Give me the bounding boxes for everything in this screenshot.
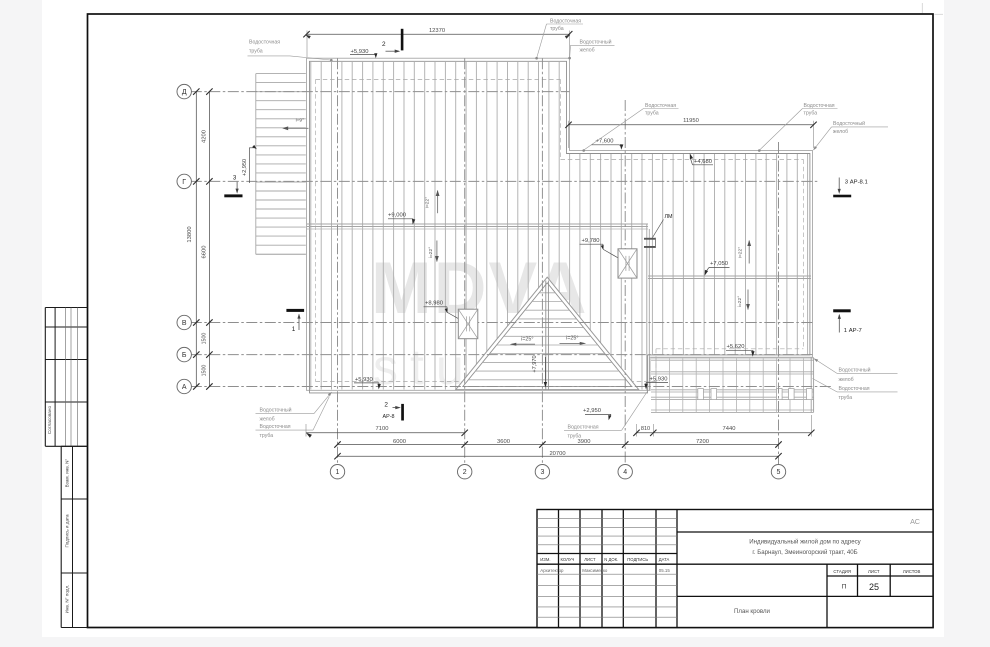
svg-text:Инв. N° подл.: Инв. N° подл. xyxy=(65,585,70,614)
svg-text:Водосточный: Водосточный xyxy=(833,120,865,127)
svg-text:Водосточная: Водосточная xyxy=(645,103,676,109)
svg-text:i=22°: i=22° xyxy=(737,296,743,307)
svg-text:труба: труба xyxy=(568,434,582,440)
svg-text:ЛИСТОВ: ЛИСТОВ xyxy=(903,569,921,574)
svg-text:6600: 6600 xyxy=(202,246,208,259)
svg-text:Водосточная: Водосточная xyxy=(249,40,280,46)
svg-text:желоб: желоб xyxy=(260,417,275,423)
svg-text:желоб: желоб xyxy=(580,47,595,53)
svg-text:Г: Г xyxy=(182,179,186,186)
svg-text:3: 3 xyxy=(233,175,237,182)
svg-text:труба: труба xyxy=(260,433,274,439)
svg-text:+5,930: +5,930 xyxy=(351,49,369,55)
svg-text:i=22°: i=22° xyxy=(737,247,743,258)
svg-text:Б: Б xyxy=(182,352,187,359)
svg-text:Архитектор: Архитектор xyxy=(540,568,564,573)
svg-text:+8,980: +8,980 xyxy=(425,300,443,306)
svg-text:ДАТА: ДАТА xyxy=(659,557,670,562)
svg-text:13800: 13800 xyxy=(187,226,193,242)
svg-text:Водосточная: Водосточная xyxy=(839,386,870,392)
svg-text:ИЗМ.: ИЗМ. xyxy=(540,557,550,562)
svg-text:План кровли: План кровли xyxy=(734,608,770,615)
svg-text:+7,600: +7,600 xyxy=(596,139,614,145)
svg-text:Индивидуальный жилой дом по ад: Индивидуальный жилой дом по адресу xyxy=(749,539,861,546)
svg-text:Взам. инв. N°: Взам. инв. N° xyxy=(65,458,70,487)
svg-text:+2,950: +2,950 xyxy=(242,159,248,176)
svg-text:Согласовано: Согласовано xyxy=(47,406,52,435)
svg-text:г. Барнаул, Змеиногорский трак: г. Барнаул, Змеиногорский тракт, 40Б xyxy=(752,549,857,556)
svg-text:+2,950: +2,950 xyxy=(583,408,601,414)
svg-text:N ДОК.: N ДОК. xyxy=(604,557,618,562)
svg-text:1: 1 xyxy=(292,326,296,333)
svg-text:1: 1 xyxy=(336,469,340,476)
svg-text:i=22°: i=22° xyxy=(424,197,430,208)
svg-text:20700: 20700 xyxy=(549,451,565,457)
svg-text:П: П xyxy=(842,584,847,591)
svg-text:3 АР-8.1: 3 АР-8.1 xyxy=(845,179,868,185)
svg-text:ЛИСТ: ЛИСТ xyxy=(868,569,880,574)
svg-text:i=9°: i=9° xyxy=(296,118,305,124)
svg-text:труба: труба xyxy=(249,48,263,54)
svg-text:Водосточный: Водосточный xyxy=(839,366,871,373)
svg-text:7440: 7440 xyxy=(723,426,736,432)
svg-text:+9,780: +9,780 xyxy=(582,238,600,244)
svg-text:труба: труба xyxy=(550,26,564,32)
svg-text:+9,000: +9,000 xyxy=(388,213,406,219)
svg-text:желоб: желоб xyxy=(839,377,854,383)
svg-text:810: 810 xyxy=(641,426,650,432)
svg-text:+5,930: +5,930 xyxy=(355,377,373,383)
svg-text:труба: труба xyxy=(839,395,853,401)
svg-text:труба: труба xyxy=(804,111,818,117)
svg-text:12370: 12370 xyxy=(429,28,445,34)
svg-text:i=25°: i=25° xyxy=(566,336,579,342)
svg-text:2: 2 xyxy=(463,469,467,476)
svg-text:11950: 11950 xyxy=(683,118,699,124)
svg-text:+4,680: +4,680 xyxy=(694,159,712,165)
svg-text:Д: Д xyxy=(182,89,187,96)
svg-text:В: В xyxy=(182,320,187,327)
svg-text:4: 4 xyxy=(623,469,627,476)
svg-text:СТАДИЯ: СТАДИЯ xyxy=(833,569,851,574)
svg-text:2: 2 xyxy=(384,401,388,408)
svg-text:2: 2 xyxy=(382,41,386,48)
svg-text:А: А xyxy=(182,384,187,391)
svg-text:Водосточная: Водосточная xyxy=(804,103,835,109)
svg-text:желоб: желоб xyxy=(833,129,848,135)
svg-text:ЛМ: ЛМ xyxy=(664,214,673,220)
svg-text:+7,970: +7,970 xyxy=(532,355,538,372)
svg-text:Водосточный: Водосточный xyxy=(580,39,612,46)
svg-text:05.15: 05.15 xyxy=(659,568,671,573)
svg-text:АС: АС xyxy=(910,517,920,526)
svg-text:1 АР-7: 1 АР-7 xyxy=(844,328,862,334)
svg-text:6000: 6000 xyxy=(393,439,406,445)
svg-text:КОЛУЧ: КОЛУЧ xyxy=(561,557,575,562)
svg-text:ЛИСТ: ЛИСТ xyxy=(584,557,596,562)
svg-text:труба: труба xyxy=(645,111,659,117)
svg-text:+7,050: +7,050 xyxy=(710,261,728,267)
svg-text:1500: 1500 xyxy=(202,365,208,377)
svg-text:+5,930: +5,930 xyxy=(650,377,668,383)
svg-text:Подпись и дата: Подпись и дата xyxy=(65,514,70,547)
svg-text:Водосточная: Водосточная xyxy=(568,424,599,430)
svg-text:4200: 4200 xyxy=(202,130,208,143)
svg-text:1500: 1500 xyxy=(202,333,208,345)
svg-text:Водосточная: Водосточная xyxy=(550,18,581,24)
svg-text:+5,620: +5,620 xyxy=(727,344,745,350)
svg-text:7200: 7200 xyxy=(696,439,709,445)
svg-text:3: 3 xyxy=(540,469,544,476)
svg-text:3600: 3600 xyxy=(497,439,510,445)
svg-text:3900: 3900 xyxy=(578,439,591,445)
svg-text:i=25°: i=25° xyxy=(521,337,534,343)
svg-text:АР-8: АР-8 xyxy=(383,414,395,420)
svg-text:Водосточный: Водосточный xyxy=(260,406,292,413)
svg-text:5: 5 xyxy=(777,469,781,476)
svg-text:25: 25 xyxy=(869,582,879,592)
svg-text:i=22°: i=22° xyxy=(428,247,434,258)
svg-text:Водосточная: Водосточная xyxy=(260,424,291,430)
svg-text:7100: 7100 xyxy=(376,426,389,432)
svg-text:ПОДПИСЬ: ПОДПИСЬ xyxy=(627,557,648,562)
svg-text:Максименко: Максименко xyxy=(582,568,608,573)
